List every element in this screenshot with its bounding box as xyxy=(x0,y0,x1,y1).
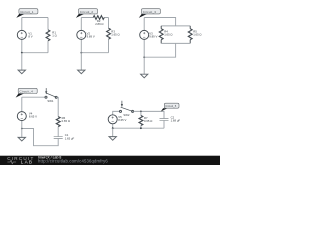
svg-text:SW1: SW1 xyxy=(47,99,54,103)
watermark bar xyxy=(0,156,220,165)
svg-text:LAB: LAB xyxy=(21,160,33,165)
ground G4 xyxy=(18,137,25,141)
wire switch to resistor Circuit_4 xyxy=(57,97,58,116)
resistor R2 xyxy=(93,16,104,20)
value label SW1 xyxy=(47,99,54,103)
value label R3 1.65 Ω xyxy=(111,30,119,37)
resistor R5 xyxy=(188,29,192,40)
value label V4 8.65 V xyxy=(29,112,37,119)
svg-text:1.65 Ω: 1.65 Ω xyxy=(164,33,172,37)
switch SW2 xyxy=(120,101,134,113)
net flag Circuit_2 xyxy=(76,9,98,18)
svg-text:Circuit_4: Circuit_4 xyxy=(20,90,34,94)
wire top Circuit_3 xyxy=(144,18,175,26)
net flag Circuit_3 xyxy=(139,9,161,18)
wire R5 leads xyxy=(189,26,191,44)
svg-text:Circuit_1: Circuit_1 xyxy=(20,10,34,14)
value label V5 8.65 V xyxy=(118,115,126,122)
net flag Circuit_1 xyxy=(16,9,38,18)
wire right Circuit_1 xyxy=(47,18,49,53)
junction node Circuit_1 ground xyxy=(21,52,23,54)
value label V2 9.89 V xyxy=(87,31,95,38)
wire R7 bottom lead xyxy=(140,126,142,129)
wire top Circuit_1 xyxy=(22,17,48,19)
value label R6 0.65 Ω xyxy=(62,116,70,123)
junction node Circuit_4 ground xyxy=(21,128,23,130)
voltage source V2 xyxy=(77,30,86,39)
voltage source V3 xyxy=(140,30,149,39)
junction node R7 bottom xyxy=(140,127,142,129)
wire switch to flag Circuit_5 xyxy=(134,111,164,118)
wire ground stem Circuit_4 xyxy=(21,129,23,138)
wire right Circuit_2 xyxy=(108,18,110,53)
capacitor C2 xyxy=(160,119,169,121)
voltage source V4 xyxy=(17,112,26,121)
resistor R4 xyxy=(159,29,163,40)
wire ground stem Circuit_2 xyxy=(80,53,82,70)
wire resistor to capacitor Circuit_4 xyxy=(57,127,59,137)
switch SW1 xyxy=(45,88,57,98)
wire R4 leads xyxy=(160,26,162,44)
svg-text:8.65 V: 8.65 V xyxy=(118,118,126,122)
svg-text:SW2: SW2 xyxy=(123,113,130,117)
resistor R7 xyxy=(139,116,143,126)
value label R1 1 Ω xyxy=(52,31,56,38)
value label R5 1.65 Ω xyxy=(193,30,201,37)
svg-text:Circuit_2: Circuit_2 xyxy=(80,10,94,14)
wire left Circuit_1 xyxy=(21,18,23,53)
voltage source V5 xyxy=(108,115,117,124)
svg-text:9.89 V: 9.89 V xyxy=(87,34,95,38)
junction node R7 top xyxy=(140,111,142,113)
resistor R1 xyxy=(46,30,50,41)
wire top Circuit_2 xyxy=(81,17,108,19)
value label C2 1.68 µF xyxy=(171,116,181,123)
wire bottom Circuit_5 xyxy=(113,124,164,129)
capacitor C1 xyxy=(54,137,63,139)
wire left top Circuit_5 xyxy=(113,111,120,114)
wire top Circuit_4 xyxy=(22,96,45,98)
ground G2 xyxy=(78,70,85,74)
wire bottom Circuit_4 xyxy=(22,129,58,146)
value label V1 8 V xyxy=(28,31,32,38)
value label SW2 xyxy=(123,113,130,117)
value label R7 0.65 Ω xyxy=(144,116,152,123)
wire bottom Circuit_2 xyxy=(81,52,108,54)
watermark url xyxy=(38,158,108,163)
ground G3 xyxy=(141,74,148,78)
junction node Circuit_5 ground xyxy=(112,127,114,129)
svg-text:0.65 Ω: 0.65 Ω xyxy=(144,119,152,123)
wire parallel top rail Circuit_3 xyxy=(161,25,190,27)
svg-text:9.89 V: 9.89 V xyxy=(149,34,157,38)
value label V3 9.89 V xyxy=(149,31,157,38)
wire capacitor bottom lead Circuit_5 xyxy=(163,120,165,128)
wire ground stem Circuit_5 xyxy=(112,128,114,136)
value label C1 1.65 µF xyxy=(65,133,75,140)
wire bottom Circuit_1 xyxy=(22,52,48,54)
svg-text:0.65 Ω: 0.65 Ω xyxy=(62,119,70,123)
junction node Circuit_3 ground xyxy=(143,56,145,58)
wire R7 top lead xyxy=(140,111,142,115)
svg-text:Circuit_3: Circuit_3 xyxy=(143,10,157,14)
wire parallel bottom rail Circuit_3 xyxy=(161,42,190,44)
svg-text:1.65 µF: 1.65 µF xyxy=(65,136,75,140)
wire bottom Circuit_3 xyxy=(144,43,175,57)
wire ground stem Circuit_1 xyxy=(21,53,23,70)
svg-text:2.89 Ω: 2.89 Ω xyxy=(95,22,103,26)
svg-text:1.65 Ω: 1.65 Ω xyxy=(193,33,201,37)
ground G1 xyxy=(18,70,25,74)
wire ground stem Circuit_3 xyxy=(143,57,145,74)
voltage source V1 xyxy=(17,30,26,39)
ground G5 xyxy=(109,137,116,141)
value label R2 2.89 Ω xyxy=(95,19,103,26)
wire left Circuit_3 xyxy=(143,18,145,58)
svg-text:8 V: 8 V xyxy=(28,34,32,38)
net flag Circuit_4 xyxy=(16,88,38,97)
resistor R3 xyxy=(107,28,111,39)
svg-text:1.68 µF: 1.68 µF xyxy=(171,119,181,123)
svg-text:8.65 V: 8.65 V xyxy=(29,115,37,119)
watermark title ImwrcX / Lab 8 xyxy=(38,156,61,160)
CircuitLab logo xyxy=(7,156,34,164)
wire left Circuit_4 xyxy=(21,97,23,128)
svg-text:http://circuitlab.com/c4536qdm: http://circuitlab.com/c4536qdmfry6 xyxy=(38,158,108,163)
value label R4 1.65 Ω xyxy=(164,30,172,37)
wire left Circuit_2 xyxy=(80,18,82,53)
resistor R6 xyxy=(56,117,60,127)
svg-text:Circuit_5: Circuit_5 xyxy=(165,104,177,108)
svg-text:1.65 Ω: 1.65 Ω xyxy=(111,33,119,37)
net flag Circuit_5 xyxy=(161,103,179,111)
junction node Circuit_2 ground xyxy=(80,52,82,54)
svg-text:1 Ω: 1 Ω xyxy=(52,34,56,38)
